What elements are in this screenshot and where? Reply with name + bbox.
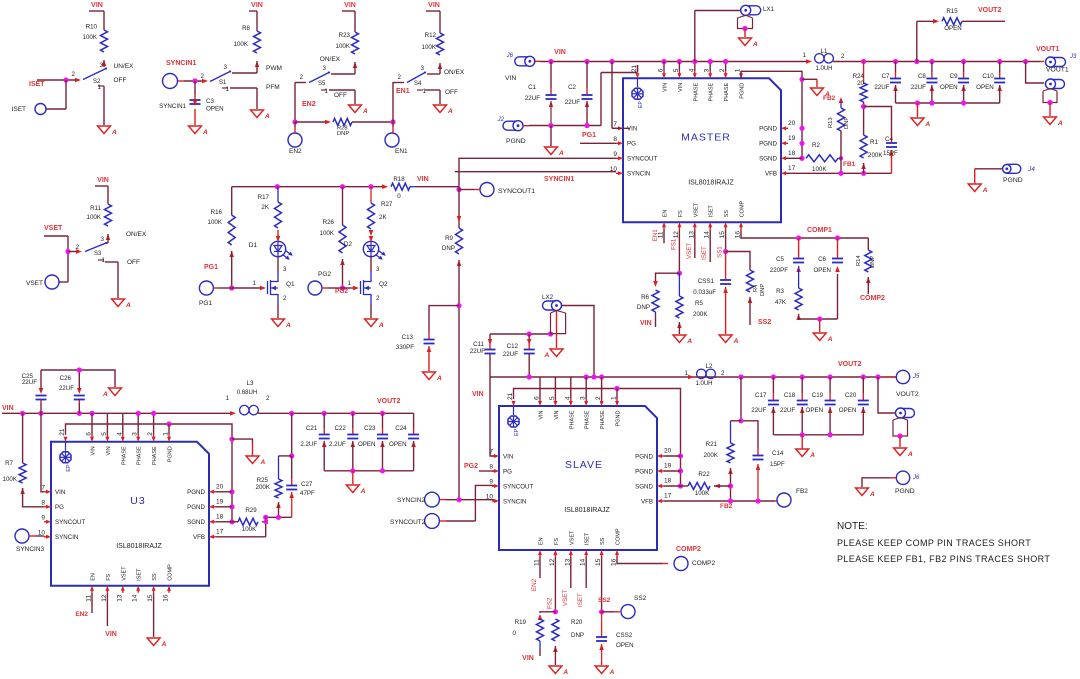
svg-text:VOUT1: VOUT1 [1036,46,1059,53]
svg-text:2.2UF: 2.2UF [329,441,346,448]
svg-text:VIN: VIN [91,446,97,455]
svg-text:VIN: VIN [251,2,263,9]
svg-text:3: 3 [224,64,228,71]
svg-text:R5: R5 [695,300,703,307]
svg-text:PGND: PGND [187,489,205,496]
svg-text:7: 7 [41,484,45,491]
svg-text:16: 16 [163,594,170,602]
svg-text:PHASE: PHASE [724,82,730,101]
svg-text:DNP: DNP [337,131,349,137]
svg-text:PHASE: PHASE [569,410,575,429]
svg-text:2: 2 [283,295,287,302]
svg-text:C2: C2 [568,84,576,91]
svg-text:9: 9 [41,514,45,521]
svg-text:C11: C11 [473,341,484,348]
svg-text:2K: 2K [379,214,387,221]
svg-text:SS2: SS2 [758,319,771,326]
svg-text:DNP: DNP [571,632,584,639]
svg-text:VSET: VSET [686,243,693,259]
svg-text:FB2: FB2 [720,503,733,510]
svg-text:C8: C8 [918,73,926,80]
svg-text:R6: R6 [641,294,649,301]
svg-text:330PF: 330PF [396,344,414,351]
svg-text:R9: R9 [445,235,453,242]
svg-text:R11: R11 [90,205,101,212]
svg-text:3: 3 [323,65,327,72]
svg-text:C7: C7 [882,73,890,80]
svg-text:22UF: 22UF [22,379,37,386]
svg-text:PG: PG [55,504,64,511]
svg-text:C21: C21 [306,425,318,432]
svg-text:PFM: PFM [266,84,280,91]
svg-text:100K: 100K [695,490,710,497]
svg-text:COMP: COMP [616,528,622,545]
svg-text:EN1: EN1 [396,88,410,95]
svg-text:22UF: 22UF [525,95,540,102]
svg-text:22UF: 22UF [565,99,580,106]
svg-text:PGND: PGND [187,504,205,511]
svg-text:PHASE: PHASE [585,410,591,429]
svg-text:VOUT2: VOUT2 [377,398,400,405]
svg-text:ISET: ISET [12,106,26,113]
svg-text:D1: D1 [249,242,258,249]
svg-text:VIN: VIN [522,655,534,662]
svg-text:ISET: ISET [709,204,715,217]
svg-text:0.68UH: 0.68UH [237,390,257,396]
svg-text:PG2: PG2 [464,463,478,470]
svg-text:C3: C3 [206,98,214,105]
svg-text:0: 0 [397,193,401,200]
svg-text:ISL8018IRAJZ: ISL8018IRAJZ [688,179,734,186]
svg-text:CSS1: CSS1 [698,278,715,285]
svg-text:C4: C4 [885,136,893,143]
svg-text:OPEN: OPEN [944,25,962,32]
svg-text:A: A [264,113,270,120]
svg-text:8: 8 [489,464,493,471]
svg-text:ISET: ISET [701,246,708,260]
svg-text:SYNCIN: SYNCIN [627,171,650,178]
svg-text:R2: R2 [812,142,820,149]
svg-text:19: 19 [664,463,672,470]
svg-text:VOUT2: VOUT2 [838,361,861,368]
svg-text:VFB: VFB [193,534,205,541]
svg-text:8: 8 [613,136,617,143]
svg-text:PG2: PG2 [318,271,331,278]
svg-text:C9: C9 [950,73,958,80]
svg-text:22UF: 22UF [911,84,926,91]
svg-text:22UF: 22UF [751,407,766,414]
svg-text:VIN: VIN [539,410,545,419]
svg-text:SYNCIN1: SYNCIN1 [544,176,574,183]
svg-text:A: A [907,451,913,458]
svg-text:PHASE: PHASE [709,82,715,101]
svg-text:EN: EN [663,210,669,218]
svg-text:2.2UF: 2.2UF [300,441,317,448]
svg-text:SYNCIN3: SYNCIN3 [16,546,45,553]
svg-text:1.0UH: 1.0UH [695,381,712,387]
svg-text:18: 18 [788,150,796,157]
svg-text:ISL8018IRAJZ: ISL8018IRAJZ [116,543,162,550]
svg-text:1: 1 [226,395,230,402]
svg-text:100K: 100K [234,41,249,48]
svg-text:A: A [558,150,564,157]
svg-text:17: 17 [788,165,796,172]
svg-text:NOTE:: NOTE: [837,521,868,532]
svg-text:PG1: PG1 [199,300,212,307]
svg-text:R23: R23 [339,32,351,39]
svg-text:17: 17 [216,528,224,535]
svg-text:OFF: OFF [127,259,140,266]
svg-text:PGND: PGND [740,83,746,99]
svg-text:OFF: OFF [114,77,127,84]
svg-text:FS1: FS1 [670,238,677,250]
svg-text:SS: SS [600,537,606,545]
svg-text:EN: EN [91,573,97,581]
svg-text:200K: 200K [256,484,271,491]
svg-text:COMP2: COMP2 [692,560,716,567]
svg-text:100K: 100K [242,526,257,533]
svg-text:CSS2: CSS2 [616,632,633,639]
svg-text:R8: R8 [242,25,250,32]
svg-text:R20: R20 [571,619,583,626]
svg-text:VIN: VIN [678,83,684,92]
svg-text:OPEN: OPEN [940,84,958,91]
svg-text:VSET: VSET [44,225,63,232]
svg-text:PLEASE KEEP FB1, FB2 PINS TRAC: PLEASE KEEP FB1, FB2 PINS TRACES SHORT [837,554,1050,564]
svg-text:D2: D2 [344,241,353,248]
svg-text:2: 2 [841,53,845,60]
svg-text:R21: R21 [706,441,718,448]
svg-text:LX1: LX1 [763,6,775,13]
svg-text:PGND: PGND [759,126,777,133]
svg-text:15PF: 15PF [770,461,785,468]
svg-text:MASTER: MASTER [681,131,731,143]
svg-text:1: 1 [98,84,102,91]
svg-text:SYNCOUT: SYNCOUT [55,519,85,526]
svg-text:OPEN: OPEN [206,106,224,113]
svg-text:R29: R29 [245,507,257,514]
svg-text:A: A [752,41,758,48]
svg-text:A: A [562,669,568,676]
svg-text:ISET: ISET [137,568,143,581]
svg-text:SYNCOUT2: SYNCOUT2 [390,519,426,526]
svg-text:SGND: SGND [759,156,777,163]
svg-text:EP: EP [66,464,72,472]
svg-text:2: 2 [398,74,402,81]
svg-text:FB2: FB2 [823,95,836,102]
svg-text:3: 3 [421,65,425,72]
svg-text:SS2: SS2 [634,595,647,602]
svg-text:1.0UH: 1.0UH [815,66,832,72]
svg-text:COMP2: COMP2 [860,295,885,302]
svg-text:PG: PG [503,468,512,475]
svg-text:ISET: ISET [29,81,45,88]
svg-text:PG2: PG2 [335,288,348,295]
svg-text:C17: C17 [755,392,767,399]
svg-text:A: A [436,375,442,382]
svg-text:VIN: VIN [2,405,14,412]
svg-text:C22: C22 [334,425,346,432]
svg-text:VIN: VIN [503,453,513,460]
svg-text:PLEASE KEEP COMP PIN TRACES SH: PLEASE KEEP COMP PIN TRACES SHORT [837,538,1031,548]
svg-text:PHASE: PHASE [600,410,606,429]
svg-text:C6: C6 [818,256,826,263]
svg-text:J3: J3 [1069,54,1077,60]
svg-text:R19: R19 [515,619,527,626]
svg-text:PHASE: PHASE [152,446,158,465]
svg-text:A: A [362,108,368,115]
svg-text:R12: R12 [425,32,437,39]
svg-text:15PF: 15PF [883,150,898,157]
svg-text:C24: C24 [395,425,407,432]
svg-text:J6: J6 [912,475,920,481]
svg-text:A: A [161,641,167,648]
svg-text:J6: J6 [506,53,514,59]
svg-text:VOUT1: VOUT1 [1046,67,1069,74]
svg-text:SYNCIN1: SYNCIN1 [159,103,186,110]
svg-text:R14: R14 [856,255,862,266]
svg-text:220PF: 220PF [770,267,788,274]
svg-text:22UF: 22UF [874,84,889,91]
svg-text:ON/EX: ON/EX [444,69,465,76]
svg-text:A: A [360,488,366,495]
svg-text:C12: C12 [507,343,519,350]
svg-text:SS: SS [724,210,730,218]
svg-text:SS: SS [152,573,158,581]
svg-text:OFF: OFF [334,92,347,99]
svg-text:A: A [285,322,291,329]
svg-text:S4: S4 [414,81,422,87]
svg-text:PG1: PG1 [204,264,218,271]
svg-text:C27: C27 [301,481,313,488]
svg-text:C10: C10 [982,73,994,80]
svg-text:7: 7 [613,121,617,128]
svg-text:J2: J2 [497,117,505,123]
svg-text:VIN: VIN [554,410,560,419]
svg-text:1: 1 [803,52,807,59]
svg-text:A: A [925,121,931,128]
svg-text:DNP: DNP [442,245,455,252]
svg-text:PGND: PGND [168,446,174,462]
svg-text:S5: S5 [318,81,326,87]
svg-text:20: 20 [664,448,672,455]
svg-text:9: 9 [489,479,493,486]
svg-text:COMP: COMP [740,200,746,217]
svg-text:2K: 2K [261,204,269,211]
svg-text:A: A [733,338,739,345]
svg-text:VFB: VFB [765,171,777,178]
svg-text:OPEN: OPEN [976,84,994,91]
svg-text:VSET: VSET [562,590,569,606]
svg-text:R27: R27 [381,201,393,208]
svg-text:VFB: VFB [641,498,653,505]
svg-text:2: 2 [721,370,725,377]
svg-text:200K: 200K [704,452,719,459]
svg-text:EN1: EN1 [652,229,659,242]
svg-text:18: 18 [664,478,672,485]
svg-text:SGND: SGND [635,483,653,490]
svg-text:FB1: FB1 [843,161,856,168]
svg-text:L3: L3 [247,380,254,387]
svg-text:ISET: ISET [585,532,591,545]
svg-text:U3: U3 [130,495,145,507]
svg-text:2: 2 [266,395,270,402]
svg-text:100K: 100K [83,34,98,41]
svg-text:SS1: SS1 [717,246,724,258]
svg-text:OPEN: OPEN [616,642,634,649]
svg-text:ISL8018IRAJZ: ISL8018IRAJZ [564,507,610,514]
svg-text:3: 3 [376,266,380,273]
svg-text:A: A [869,491,875,498]
svg-text:A: A [378,322,384,329]
svg-text:1: 1 [102,257,106,264]
svg-text:VIN: VIN [663,83,669,92]
svg-text:C14: C14 [772,450,784,457]
svg-text:1: 1 [325,88,329,95]
svg-text:VIN: VIN [627,126,637,133]
svg-text:COMP2: COMP2 [676,546,701,553]
svg-text:VIN: VIN [105,631,117,638]
svg-text:VOUT2: VOUT2 [896,391,919,398]
svg-text:UN/EX: UN/EX [114,63,135,70]
svg-text:A: A [686,338,692,345]
svg-text:A: A [609,669,615,676]
svg-text:FB2: FB2 [796,488,808,495]
svg-text:19: 19 [788,135,796,142]
svg-text:20: 20 [788,120,796,127]
svg-text:13: 13 [116,594,123,602]
svg-text:PG: PG [627,141,636,148]
svg-text:22UF: 22UF [503,351,518,358]
svg-text:200K: 200K [693,311,708,318]
svg-text:PGND: PGND [1003,177,1023,184]
svg-text:100K: 100K [320,230,335,237]
svg-text:3: 3 [100,62,104,69]
svg-text:VIN: VIN [554,49,566,56]
svg-text:A: A [809,452,815,459]
svg-text:OPEN: OPEN [358,441,376,448]
svg-text:PG1: PG1 [582,132,596,139]
svg-text:VSET: VSET [121,566,127,581]
svg-text:A: A [982,187,988,194]
svg-text:SYNCOUT: SYNCOUT [503,483,533,490]
svg-text:R1: R1 [870,139,878,146]
svg-text:SGND: SGND [187,519,205,526]
svg-text:VIN: VIN [640,320,652,327]
svg-text:PGND: PGND [759,141,777,148]
svg-text:A: A [447,108,453,115]
svg-text:COMP: COMP [168,564,174,581]
svg-text:PWM: PWM [266,65,282,72]
svg-text:OFF: OFF [445,89,458,96]
svg-text:J5: J5 [912,374,920,380]
svg-text:DNP: DNP [637,304,650,311]
svg-text:A: A [544,352,550,359]
svg-text:2: 2 [72,71,76,78]
svg-text:C20: C20 [845,392,857,399]
svg-text:VSET: VSET [569,530,575,545]
svg-text:R3: R3 [776,288,784,295]
svg-text:R13: R13 [828,117,834,128]
svg-text:22UF: 22UF [780,407,795,414]
svg-text:FS: FS [678,210,684,217]
svg-text:OPEN: OPEN [806,407,824,414]
svg-text:R25: R25 [257,477,269,484]
svg-text:100K: 100K [422,44,437,51]
svg-text:A: A [102,391,108,398]
svg-text:VSET: VSET [693,202,699,217]
svg-text:R15: R15 [946,8,958,15]
svg-text:VIN: VIN [91,2,103,9]
svg-text:100K: 100K [336,43,351,50]
svg-text:EN: EN [539,537,545,545]
svg-text:A: A [125,302,131,309]
svg-text:R22: R22 [698,471,710,478]
svg-text:R4: R4 [753,284,759,292]
svg-text:SYNCIN: SYNCIN [503,498,526,505]
svg-text:PHASE: PHASE [137,446,143,465]
svg-text:14: 14 [132,594,139,602]
svg-text:9: 9 [613,151,617,158]
svg-text:VIN: VIN [97,177,109,184]
svg-text:PGND: PGND [506,138,526,145]
svg-text:C18: C18 [784,392,796,399]
svg-text:100K: 100K [3,476,18,483]
svg-text:OPEN: OPEN [839,407,857,414]
svg-text:VIN: VIN [472,391,484,398]
svg-text:DNP: DNP [844,117,850,129]
svg-text:A: A [260,459,266,466]
svg-text:J4: J4 [1027,166,1035,173]
svg-text:8: 8 [41,499,45,506]
svg-text:PHASE: PHASE [693,82,699,101]
svg-text:R17: R17 [258,194,270,201]
svg-text:DNP: DNP [870,256,876,268]
svg-text:A: A [202,129,208,136]
svg-text:VIN: VIN [106,446,112,455]
svg-text:DNP: DNP [760,284,766,296]
svg-text:200K: 200K [868,152,883,159]
svg-text:10: 10 [38,529,46,536]
svg-text:20: 20 [857,80,864,87]
svg-text:R26: R26 [323,219,335,226]
svg-text:PHASE: PHASE [121,446,127,465]
svg-text:47K: 47K [775,299,787,306]
svg-text:FS: FS [106,573,112,580]
svg-text:ON/EX: ON/EX [126,231,147,238]
svg-text:SYNCIN2: SYNCIN2 [397,497,426,504]
svg-text:PGND: PGND [616,410,622,426]
svg-text:Q1: Q1 [286,281,295,288]
svg-text:1: 1 [423,88,427,95]
svg-text:SLAVE: SLAVE [565,459,603,471]
svg-text:EN2: EN2 [75,611,88,618]
svg-text:EN1: EN1 [395,148,408,155]
svg-text:1: 1 [348,280,352,287]
svg-text:FS: FS [554,538,560,545]
svg-text:R18: R18 [393,176,405,183]
svg-text:VIN: VIN [428,2,440,9]
svg-text:EP: EP [514,428,520,436]
svg-text:VOUT2: VOUT2 [978,7,1001,14]
svg-text:VSET: VSET [26,280,43,287]
svg-text:EN2: EN2 [302,101,316,108]
svg-text:EP: EP [638,101,644,109]
svg-text:1: 1 [253,280,257,287]
svg-text:R7: R7 [5,460,13,467]
svg-text:2: 2 [300,74,304,81]
svg-text:18: 18 [216,513,224,520]
